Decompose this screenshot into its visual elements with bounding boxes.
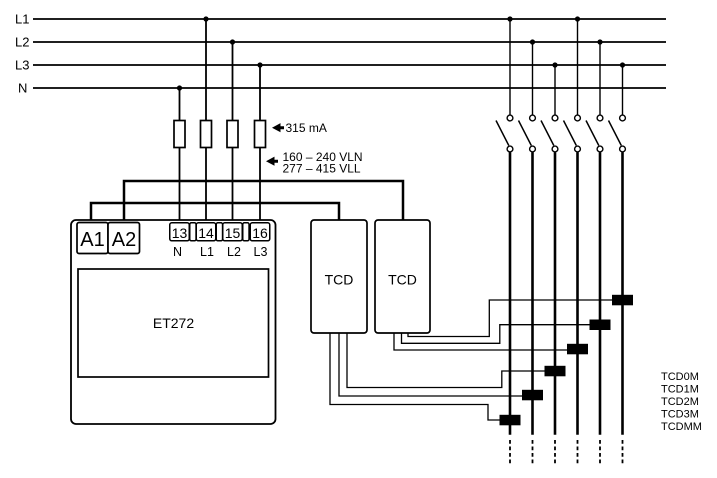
wire fuse L3 to terminal 16: [259, 148, 261, 224]
svg-text:TCDMM: TCDMM: [661, 421, 702, 433]
wire L1 line: [33, 18, 666, 20]
wire TCD1 pin to CT2: [339, 333, 522, 396]
junction L1 tap: [203, 16, 208, 21]
terminal A2: [108, 223, 140, 254]
transducer TCD1 box: [311, 220, 367, 333]
wire TCD2 pin to CT4: [394, 333, 567, 350]
svg-text:15: 15: [225, 225, 241, 241]
svg-text:16: 16: [252, 225, 268, 241]
wire switch1 dashed continuation: [509, 440, 511, 464]
svg-text:A2: A2: [112, 229, 136, 251]
terminal 16: [250, 223, 270, 241]
wire switch2 load line: [531, 152, 534, 435]
junction switch2 tap on L2: [530, 39, 535, 44]
wire switch4 drop: [577, 19, 579, 115]
junction switch4 tap on L1: [575, 16, 580, 21]
switch S4 blade: [564, 121, 577, 146]
switch S3 blade: [541, 121, 554, 146]
current sensor CT1: [500, 415, 521, 426]
wire switch3 dashed continuation: [554, 440, 556, 464]
current sensor CT2: [522, 390, 543, 401]
switch S3 top contact: [552, 115, 558, 121]
wire TCD1 pin to CT1: [330, 333, 500, 420]
switch S4 top contact: [575, 115, 581, 121]
wire switch4 load line: [576, 152, 579, 435]
switch S6 top contact: [620, 115, 626, 121]
junction switch5 tap on L2: [597, 39, 602, 44]
wire bus A2 to TCD2: [124, 181, 403, 223]
junction L2 tap: [230, 39, 235, 44]
wire switch3 load line: [554, 152, 557, 435]
wire switch4 dashed continuation: [577, 440, 579, 464]
junction switch1 tap on L1: [507, 16, 512, 21]
wire fuse L2 to terminal 15: [232, 148, 234, 224]
svg-text:ET272: ET272: [153, 315, 194, 331]
svg-text:TCD1M: TCD1M: [661, 384, 699, 396]
wire L2 line: [33, 41, 666, 43]
switch S6 bottom contact: [620, 146, 626, 152]
current sensor CT4: [567, 344, 588, 355]
svg-text:L3: L3: [254, 245, 268, 259]
terminal 14: [196, 223, 216, 241]
svg-text:TCD: TCD: [388, 272, 417, 288]
switch S5 top contact: [597, 115, 603, 121]
svg-text:L3: L3: [15, 58, 29, 73]
switch S2 blade: [519, 121, 532, 146]
wire switch6 dashed continuation: [622, 440, 624, 464]
svg-text:TCD: TCD: [325, 272, 354, 288]
wire switch3 drop: [554, 65, 556, 115]
switch S2 top contact: [530, 115, 536, 121]
wire switch5 dashed continuation: [599, 440, 601, 464]
svg-text:277 – 415 VLL: 277 – 415 VLL: [283, 162, 361, 176]
svg-text:A1: A1: [80, 229, 104, 251]
wire switch6 load line: [621, 152, 624, 435]
switch S4 bottom contact: [575, 146, 581, 152]
wire switch1 drop: [509, 19, 511, 115]
junction switch6 tap on L3: [620, 62, 625, 67]
wire switch5 drop: [599, 42, 601, 115]
wire TCD2 pin to CT6: [408, 300, 612, 337]
wire bus A1 to TCD1: [91, 203, 339, 223]
value label arrow voltage: [266, 157, 278, 166]
wire fuse N to terminal 13: [179, 148, 181, 224]
switch S6 blade: [609, 121, 622, 146]
fuse L3 315mA: [255, 121, 266, 148]
junction N tap: [177, 85, 182, 90]
wire L3 line: [33, 64, 666, 66]
switch S1 blade: [496, 121, 509, 146]
wire switch5 load line: [599, 152, 602, 435]
wire TCD2 pin to CT5: [402, 325, 590, 344]
wire N tap to fuse: [179, 88, 181, 121]
terminal A1: [77, 223, 108, 254]
current sensor CT5: [590, 320, 611, 331]
wire switch6 drop: [622, 65, 624, 115]
value label arrow 315 mA: [272, 123, 284, 132]
svg-text:TCD2M: TCD2M: [661, 396, 699, 408]
switch S3 bottom contact: [552, 146, 558, 152]
junction L3 tap: [257, 62, 262, 67]
svg-text:N: N: [173, 245, 182, 259]
svg-text:TCD3M: TCD3M: [661, 409, 699, 421]
wire L2 tap to fuse: [232, 42, 234, 121]
wire switch2 drop: [532, 42, 534, 115]
svg-text:TCD0M: TCD0M: [661, 371, 699, 383]
svg-text:N: N: [18, 81, 27, 96]
svg-text:L2: L2: [227, 245, 241, 259]
svg-text:L1: L1: [200, 245, 214, 259]
svg-text:315 mA: 315 mA: [286, 121, 327, 135]
switch S5 blade: [586, 121, 599, 146]
svg-text:13: 13: [172, 225, 188, 241]
junction switch3 tap on L3: [552, 62, 557, 67]
wire L3 tap to fuse: [259, 65, 261, 121]
switch S5 bottom contact: [597, 146, 603, 152]
fuse N 315mA: [174, 121, 185, 148]
fuse L1 315mA: [201, 121, 212, 148]
terminal clamp 13: [190, 223, 196, 241]
wire N line: [33, 87, 666, 89]
current sensor CT3: [545, 366, 566, 377]
svg-text:L2: L2: [15, 35, 29, 50]
wire L1 tap to fuse: [205, 19, 207, 121]
wire switch1 load line: [509, 152, 512, 435]
terminal 13: [170, 223, 190, 241]
terminal clamp 15: [243, 223, 249, 241]
terminal clamp 14: [216, 223, 222, 241]
wire fuse L1 to terminal 14: [205, 148, 207, 224]
switch S2 bottom contact: [530, 146, 536, 152]
switch S1 bottom contact: [507, 146, 513, 152]
meter U1 ET272 inner box: [78, 269, 269, 377]
transducer TCD2 box: [375, 220, 430, 333]
meter U1 ET272 outer box: [71, 220, 276, 424]
switch S1 top contact: [507, 115, 513, 121]
svg-text:L1: L1: [15, 12, 29, 27]
terminal 15: [223, 223, 243, 241]
wire TCD1 pin to CT3: [347, 333, 545, 388]
fuse L2 315mA: [227, 121, 238, 148]
wire switch2 dashed continuation: [532, 440, 534, 464]
svg-text:14: 14: [198, 225, 214, 241]
current sensor CT6: [612, 295, 633, 306]
